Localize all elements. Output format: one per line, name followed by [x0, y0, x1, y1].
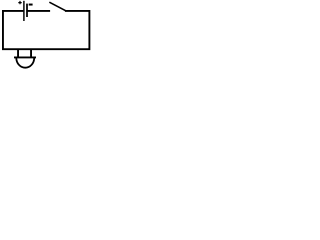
bell LS1 left lead from bottom wire — [17, 49, 19, 57]
switch S1 open blade from raised tip to pivot on right wire — [49, 2, 65, 11]
bell LS1 gong dome — [16, 58, 34, 68]
battery B1 plus polarity label — [18, 1, 21, 4]
battery B1 negative short plate — [26, 4, 28, 17]
bell LS1 right lead from bottom wire — [30, 49, 32, 57]
battery B1 minus polarity label — [29, 4, 33, 6]
wire: top-middle segment from battery negative plate to switch left contact — [27, 10, 50, 12]
wire: top-left segment from battery positive plate to top-left corner, down left side, along bottom, up right side to switch pivot — [3, 11, 89, 49]
battery B1 positive long plate — [23, 1, 25, 21]
bell LS1 mounting bar (flat top) — [14, 56, 36, 58]
